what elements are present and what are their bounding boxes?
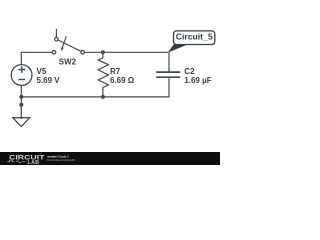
svg-text:http://circuitlab.com/c6e2zq2v: http://circuitlab.com/c6e2zq2vh8h	[47, 158, 75, 162]
ground triangle	[13, 118, 30, 127]
SW2 switch arm	[58, 40, 81, 51]
footer logo waveform	[7, 160, 26, 163]
C2 top plate	[156, 71, 180, 73]
V5 plus sign (positive terminal mark)	[18, 66, 25, 73]
junction node (rail / R7 bottom)	[101, 95, 105, 99]
SW2 actuator arrowhead	[61, 47, 64, 51]
wire bottom rail	[21, 78, 169, 97]
SW2 upper throw terminal (pin 2)	[55, 37, 59, 41]
voltage source V5	[11, 65, 32, 86]
SW2 upper throw stub wire	[55, 29, 57, 38]
resistor R7	[98, 52, 108, 97]
SW2 common terminal (pin 3)	[81, 51, 85, 55]
svg-text:Circuit_5: Circuit_5	[176, 33, 213, 42]
ground stub wire	[20, 105, 22, 119]
V5 minus sign (negative terminal mark)	[18, 79, 25, 81]
SW2 actuator line	[62, 36, 66, 47]
svg-text:V5: V5	[37, 67, 47, 76]
footer bar	[0, 152, 220, 165]
ground	[13, 105, 30, 127]
V5 body circle	[11, 65, 32, 86]
wire V5 bottom	[20, 85, 22, 105]
C2 bottom plate	[156, 76, 180, 78]
wire top-left (V5 top to switch)	[21, 52, 52, 64]
svg-text:5.69 V: 5.69 V	[37, 76, 61, 85]
svg-text:rusetkan / Circuit_5: rusetkan / Circuit_5	[47, 155, 69, 159]
wire switch to capacitor (top rail)	[85, 51, 169, 53]
junction node (rail / R7 top)	[101, 50, 105, 54]
capacitor C2	[156, 72, 180, 77]
svg-text:6.69 Ω: 6.69 Ω	[110, 76, 135, 85]
svg-text:SW2: SW2	[59, 58, 77, 67]
callout box Circuit_5	[174, 31, 215, 45]
junction node (ground)	[19, 103, 23, 107]
svg-text:LAB: LAB	[28, 160, 40, 165]
svg-text:C2: C2	[184, 67, 195, 76]
callout tail	[168, 45, 187, 53]
wire capacitor top stub	[168, 52, 170, 71]
switch SW2	[52, 29, 84, 54]
SW2 left terminal (pin 1)	[52, 51, 56, 55]
junction node (rail / V5)	[19, 95, 23, 99]
svg-text:1.69 µF: 1.69 µF	[184, 76, 211, 85]
svg-text:R7: R7	[110, 67, 121, 76]
